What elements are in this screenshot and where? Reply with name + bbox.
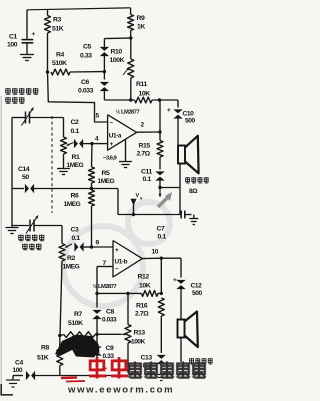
svg-text:+: + (115, 247, 119, 254)
svg-text:R6: R6 (71, 193, 80, 200)
svg-text:R11: R11 (136, 81, 148, 88)
svg-text:C2: C2 (71, 119, 80, 126)
svg-text:510K: 510K (68, 320, 83, 327)
svg-text:R2: R2 (67, 255, 76, 262)
svg-text:C4: C4 (15, 360, 24, 367)
svg-text:8Ω: 8Ω (189, 188, 198, 195)
svg-text:100K: 100K (131, 339, 146, 346)
svg-text:50: 50 (22, 174, 29, 181)
svg-text:1MEG: 1MEG (64, 201, 81, 208)
svg-text:500: 500 (185, 118, 196, 125)
svg-text:C14: C14 (18, 166, 30, 173)
svg-text:C9: C9 (106, 345, 115, 352)
svg-text:R5: R5 (102, 170, 111, 177)
svg-text:½ LM2877: ½ LM2877 (116, 109, 140, 116)
svg-text:0.1: 0.1 (72, 235, 81, 242)
svg-text:100: 100 (7, 42, 18, 49)
svg-text:½ LM2877: ½ LM2877 (93, 283, 117, 290)
svg-text:1MEG: 1MEG (63, 264, 80, 271)
svg-text:+: + (32, 31, 36, 38)
svg-text:−3,6,9: −3,6,9 (103, 156, 118, 162)
svg-text:C7: C7 (157, 226, 166, 233)
svg-text:C12: C12 (191, 283, 203, 290)
svg-text:0.1: 0.1 (158, 234, 167, 241)
svg-text:1MEG: 1MEG (98, 178, 115, 185)
svg-text:10K: 10K (139, 91, 151, 98)
svg-text:0.1: 0.1 (71, 128, 80, 135)
svg-text:0.033: 0.033 (102, 317, 117, 324)
svg-text:R9: R9 (137, 15, 146, 22)
svg-text:10: 10 (152, 249, 159, 256)
svg-text:C13: C13 (141, 355, 153, 362)
svg-text:www.eeworm.com: www.eeworm.com (67, 385, 174, 396)
svg-text:100K: 100K (110, 57, 125, 64)
svg-text:R8: R8 (41, 345, 50, 352)
svg-text:R1: R1 (72, 154, 81, 161)
svg-text:0.33: 0.33 (103, 353, 115, 360)
svg-text:10K: 10K (139, 283, 151, 290)
svg-text:R13: R13 (134, 330, 146, 337)
svg-text:C3: C3 (71, 227, 80, 234)
svg-text:0.1: 0.1 (143, 176, 152, 183)
svg-text:+: + (173, 277, 177, 284)
svg-text:C11: C11 (141, 169, 153, 176)
svg-text:C5: C5 (83, 44, 92, 51)
svg-text:51K: 51K (37, 355, 49, 362)
svg-text:R7: R7 (74, 311, 83, 318)
svg-text:R15: R15 (139, 143, 151, 150)
svg-text:500: 500 (192, 290, 203, 297)
svg-text:C10: C10 (183, 111, 195, 118)
svg-text:R16: R16 (136, 303, 148, 310)
svg-text:C1: C1 (9, 34, 18, 41)
svg-text:C6: C6 (81, 79, 90, 86)
svg-text:2.7Ω: 2.7Ω (137, 151, 151, 158)
svg-text:+: + (167, 107, 171, 114)
svg-text:0.33: 0.33 (80, 53, 92, 60)
svg-text:1K: 1K (137, 24, 145, 31)
svg-text:100: 100 (13, 367, 23, 374)
svg-text:R10: R10 (111, 49, 123, 56)
svg-text:R12: R12 (138, 274, 150, 281)
svg-text:C8: C8 (106, 309, 115, 316)
svg-text:+: + (110, 141, 114, 148)
svg-text:510K: 510K (52, 60, 67, 67)
svg-text:R3: R3 (53, 17, 62, 24)
svg-text:R4: R4 (56, 52, 65, 59)
svg-text:1MEG: 1MEG (67, 162, 84, 169)
svg-text:U1-b: U1-b (115, 259, 128, 266)
svg-text:2.7Ω: 2.7Ω (135, 311, 149, 318)
svg-text:U1-a: U1-a (109, 133, 122, 140)
svg-text:0.033: 0.033 (78, 88, 94, 95)
svg-text:51K: 51K (52, 26, 64, 33)
